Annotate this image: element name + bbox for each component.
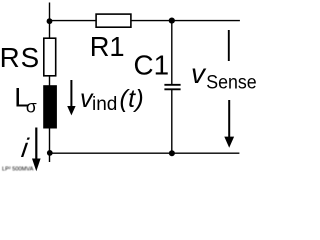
wire: capacitor branch lower — [171, 90, 173, 153]
node: bottom-right junction — [169, 150, 175, 156]
wire: capacitor branch upper — [171, 21, 173, 84]
node: bottom-left junction — [47, 150, 53, 156]
svg-text:σ: σ — [26, 96, 37, 116]
wire: left vertical rail — [49, 3, 51, 163]
arrow v_Sense lower segment with head — [228, 100, 230, 138]
inductor L_sigma (filled box) — [43, 85, 57, 128]
svg-text:LP² 500MVA: LP² 500MVA — [2, 166, 34, 172]
resistor R1 — [96, 14, 131, 27]
svg-text:ind: ind — [92, 94, 117, 115]
svg-text:R1: R1 — [90, 31, 125, 62]
arrow v_ind — [70, 80, 72, 108]
label i — [20, 132, 31, 163]
svg-text:Sense: Sense — [206, 72, 257, 94]
svg-text:RS: RS — [0, 42, 40, 73]
capacitor C1 — [164, 84, 180, 86]
node: top-left junction — [47, 18, 53, 24]
svg-text:v: v — [191, 58, 207, 89]
arrow v_Sense upper segment — [228, 30, 230, 61]
arrow i (current) — [35, 128, 37, 161]
wire: top horizontal — [50, 20, 240, 22]
svg-text:C1: C1 — [134, 50, 170, 81]
node: top-right junction — [169, 18, 175, 24]
wire: bottom horizontal — [50, 152, 240, 154]
svg-text:(t): (t) — [120, 85, 145, 113]
resistor RS — [44, 38, 56, 76]
